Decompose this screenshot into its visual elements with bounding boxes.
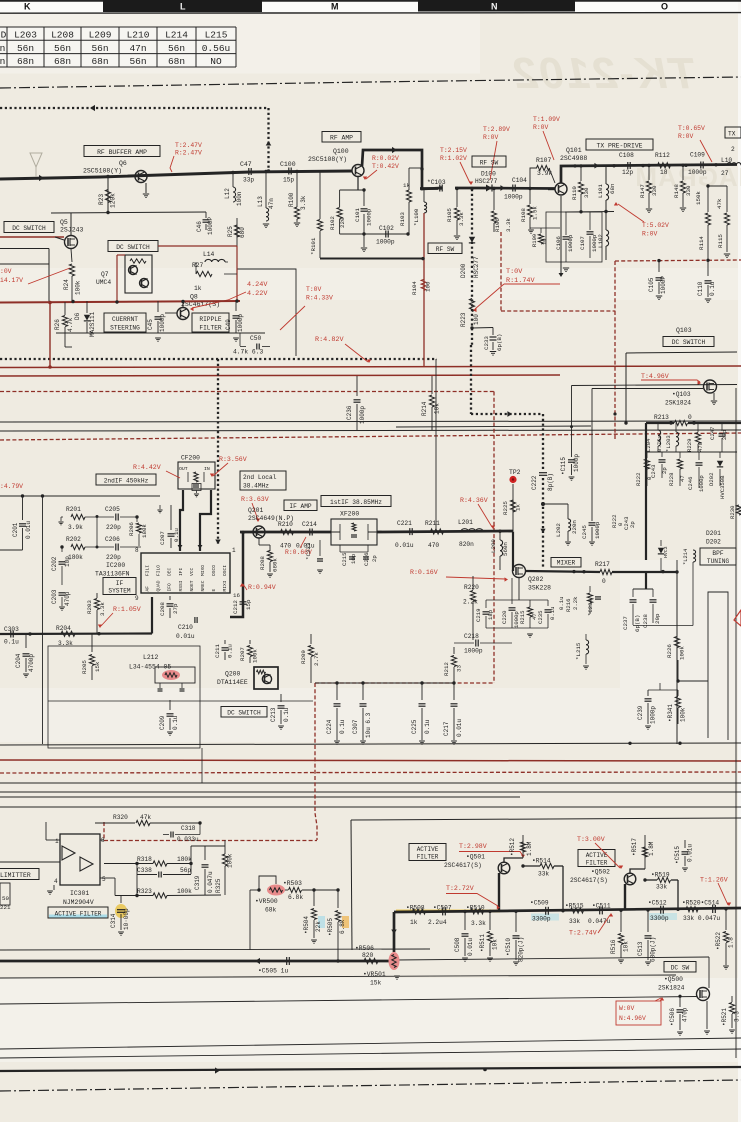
svg-text:6p(B): 6p(B) xyxy=(496,334,503,351)
capacitor C49 xyxy=(225,301,244,333)
resistor R522 xyxy=(715,907,735,957)
svg-text:•R511: •R511 xyxy=(479,934,486,952)
capacitor C103 xyxy=(420,179,478,192)
svg-text:R220: R220 xyxy=(464,584,479,591)
svg-text:C208: C208 xyxy=(159,602,166,616)
label Q501 xyxy=(444,854,485,870)
voltage R:0.66V xyxy=(285,537,312,556)
svg-text:1stIF 38.85MHz: 1stIF 38.85MHz xyxy=(330,499,382,506)
capacitor C50 xyxy=(233,333,270,356)
svg-text:R:1.05V: R:1.05V xyxy=(113,606,141,613)
vertical x42 xyxy=(42,496,44,744)
resistor R225 xyxy=(502,500,522,515)
svg-text:n: n xyxy=(0,56,5,67)
svg-text:C215: C215 xyxy=(341,553,348,566)
mixer out wire xyxy=(526,570,600,574)
box RIPPLE FILTER xyxy=(192,313,229,332)
dotted D200 chain xyxy=(470,187,473,345)
coil value table xyxy=(0,27,236,67)
svg-text:1.8M: 1.8M xyxy=(526,841,533,856)
resistor R211 xyxy=(425,520,444,549)
svg-text:1000p: 1000p xyxy=(594,521,601,539)
transistor Q103 xyxy=(592,380,717,407)
resistor R108 xyxy=(520,187,539,233)
svg-text:T:1.26V: T:1.26V xyxy=(700,877,728,884)
resistor R226 xyxy=(666,570,686,660)
svg-text:DTA114EE: DTA114EE xyxy=(217,679,248,686)
black line y744 xyxy=(0,743,741,745)
svg-text:*C234: *C234 xyxy=(587,599,594,616)
rail y452 xyxy=(646,451,737,453)
voltage R:0.02V T:0.42V xyxy=(363,155,399,180)
svg-text:O: O xyxy=(661,2,668,12)
capacitor C106cell xyxy=(546,212,602,272)
svg-text:C49: C49 xyxy=(225,319,232,330)
svg-text:3.3k: 3.3k xyxy=(458,212,465,226)
svg-text:D202: D202 xyxy=(708,473,715,486)
resistor R212 xyxy=(443,647,463,683)
red dashed bus C xyxy=(0,391,494,393)
svg-text:2SC4988: 2SC4988 xyxy=(560,155,587,162)
capacitor C115 xyxy=(560,386,580,481)
resistor R341 xyxy=(667,690,687,724)
svg-text:Q100: Q100 xyxy=(333,148,349,155)
svg-text:C245: C245 xyxy=(581,525,588,539)
resistor R516 xyxy=(610,909,630,964)
capacitor C314 xyxy=(110,895,130,935)
svg-text:C233: C233 xyxy=(483,336,490,350)
svg-text:R:0.16V: R:0.16V xyxy=(410,569,438,576)
svg-text:0.1u: 0.1u xyxy=(172,715,179,730)
svg-text:R148: R148 xyxy=(673,184,680,198)
enclosure left x351 xyxy=(351,820,352,950)
svg-text:470: 470 xyxy=(697,441,704,452)
capacitor C202 xyxy=(51,545,71,585)
svg-text:L: L xyxy=(180,2,186,12)
svg-text:33k 0.047u: 33k 0.047u xyxy=(683,915,720,922)
resistor R105 xyxy=(446,187,465,240)
dotted vertical x218 xyxy=(215,359,221,545)
svg-text:C225: C225 xyxy=(411,719,418,734)
box RF SW upper xyxy=(472,156,506,167)
svg-text:W:0V: W:0V xyxy=(619,1005,635,1012)
svg-text:C107: C107 xyxy=(579,236,586,250)
svg-text:220p: 220p xyxy=(106,524,121,531)
box CUERRNT STEERING xyxy=(104,313,146,332)
svg-text:IFI: IFI xyxy=(178,567,184,576)
capacitor C303 xyxy=(4,626,19,646)
svg-text:K: K xyxy=(24,2,31,12)
svg-text:47n: 47n xyxy=(129,43,146,54)
svg-text:0: 0 xyxy=(688,414,692,421)
svg-text:3.3k: 3.3k xyxy=(300,195,307,210)
resistor R209 xyxy=(300,634,320,683)
voltage 4.24V 4.22V xyxy=(190,281,268,311)
svg-text:DC SWITCH: DC SWITCH xyxy=(116,244,150,251)
box DC SWITCH if xyxy=(221,707,267,718)
svg-text:C318: C318 xyxy=(181,825,196,832)
svg-text:T:5.02V: T:5.02V xyxy=(642,222,669,229)
capacitor C204 xyxy=(15,634,35,677)
svg-text:CUERRNT: CUERRNT xyxy=(112,316,138,323)
svg-text:8p(B): 8p(B) xyxy=(547,473,554,491)
resistor R27 xyxy=(192,262,237,292)
svg-text:470p: 470p xyxy=(64,591,71,606)
svg-text:R102: R102 xyxy=(329,216,336,230)
svg-text:L212: L212 xyxy=(143,654,159,661)
voltage R:3.56V xyxy=(210,456,247,477)
svg-text:*L215: *L215 xyxy=(575,642,582,660)
svg-text:STEERING: STEERING xyxy=(110,325,140,332)
inductor L201 xyxy=(458,519,483,548)
svg-text:330: 330 xyxy=(583,187,590,198)
svg-text:2SK1824: 2SK1824 xyxy=(665,400,691,407)
svg-text:C104: C104 xyxy=(512,177,527,184)
capacitor C509 xyxy=(530,900,559,923)
svg-text:•R503: •R503 xyxy=(283,880,302,887)
red dash y261 right xyxy=(615,260,741,261)
resistor R220 xyxy=(463,576,479,640)
inductor L203 xyxy=(665,423,679,452)
box 1stIF xyxy=(321,496,391,507)
red dash vertical x615 lower xyxy=(614,311,616,440)
box LIMITTER xyxy=(0,869,39,880)
voltage R:4.42V xyxy=(133,464,180,478)
svg-text:R215: R215 xyxy=(519,611,526,624)
arrow on y1070 bus xyxy=(215,1067,220,1073)
svg-text:0.1u: 0.1u xyxy=(339,719,346,734)
resistor R519 xyxy=(643,872,679,912)
svg-text:2SC5108(Y): 2SC5108(Y) xyxy=(308,156,347,163)
capacitor C223 xyxy=(305,540,323,573)
capacitor C205 xyxy=(85,506,137,531)
svg-text:FILO: FILO xyxy=(156,565,162,576)
audio bus arrow xyxy=(255,957,340,975)
svg-text:2p: 2p xyxy=(371,555,378,562)
svg-text:C222: C222 xyxy=(531,475,538,490)
label Q100 xyxy=(308,148,349,163)
svg-text:*L100: *L100 xyxy=(413,208,420,226)
rail y466 xyxy=(0,0,1,1)
svg-text:C314: C314 xyxy=(110,913,117,928)
svg-text:2p: 2p xyxy=(629,521,636,528)
svg-text:221: 221 xyxy=(0,904,11,911)
svg-text:100k: 100k xyxy=(75,280,82,295)
svg-text:D: D xyxy=(1,30,7,41)
capacitor C510 xyxy=(505,910,525,966)
svg-text:IC200: IC200 xyxy=(106,562,125,569)
red dashed bus F xyxy=(0,433,741,440)
svg-text:R103: R103 xyxy=(399,212,406,226)
component Q200 xyxy=(217,667,278,689)
transistor Q202 xyxy=(513,565,552,592)
svg-text:1k: 1k xyxy=(194,285,202,292)
svg-text:Q7: Q7 xyxy=(101,271,109,278)
svg-text:C46: C46 xyxy=(196,221,203,232)
box 2ndIF 450kHz xyxy=(96,474,156,485)
svg-text:470: 470 xyxy=(428,542,439,549)
svg-text:1000p: 1000p xyxy=(567,234,574,252)
capacitor C220 xyxy=(501,578,520,628)
svg-text:R27: R27 xyxy=(192,262,204,269)
svg-text:1000p: 1000p xyxy=(237,314,244,332)
svg-text:0.033u: 0.033u xyxy=(177,836,199,843)
rail y427 xyxy=(396,426,591,430)
svg-text:680: 680 xyxy=(239,227,246,238)
box DC SWITCH q7 xyxy=(108,241,158,252)
svg-text:•R520•C514: •R520•C514 xyxy=(682,900,719,907)
capacitor C236 xyxy=(346,376,366,430)
svg-text:15p: 15p xyxy=(245,599,252,610)
IC301 wires xyxy=(0,822,104,894)
svg-text:R:0V: R:0V xyxy=(483,134,499,141)
svg-text:C101: C101 xyxy=(354,208,361,222)
svg-text:TX PRE-DRIVE: TX PRE-DRIVE xyxy=(596,143,642,150)
inductor L101 xyxy=(597,166,616,211)
label D201 D202 xyxy=(706,530,721,546)
inductor L202 labels xyxy=(555,520,578,537)
resistor R511 xyxy=(479,910,499,962)
capacitor C224 xyxy=(326,683,346,744)
svg-text:R325: R325 xyxy=(215,878,222,893)
box 2nd Local xyxy=(240,471,286,490)
svg-text:ACTIVE FILTER: ACTIVE FILTER xyxy=(55,911,102,918)
box RF BUFFER AMP xyxy=(84,146,160,157)
svg-text:C508: C508 xyxy=(454,937,461,952)
svg-text:IC301: IC301 xyxy=(70,890,89,897)
svg-text:C338: C338 xyxy=(137,867,152,874)
svg-text:1000P: 1000P xyxy=(660,276,667,294)
voltage W:0V N:4.96V xyxy=(616,997,664,1025)
light band bottom xyxy=(0,978,741,1062)
svg-text:C206: C206 xyxy=(105,536,120,543)
svg-text:1000p: 1000p xyxy=(376,239,395,246)
svg-text:56n: 56n xyxy=(54,43,71,54)
audio AF bus xyxy=(0,632,152,636)
svg-text:TA31136FN: TA31136FN xyxy=(95,571,130,578)
ground Q6 emitter xyxy=(143,183,149,198)
svg-text:•R515: •R515 xyxy=(565,903,584,910)
svg-text:HSC277: HSC277 xyxy=(473,256,480,278)
svg-text:470p: 470p xyxy=(682,1007,689,1022)
black bus J xyxy=(0,791,741,793)
resistor R515 xyxy=(565,903,584,926)
svg-text:NDET: NDET xyxy=(189,580,195,591)
capacitor C233 stub xyxy=(470,326,503,355)
resistor R206 xyxy=(128,515,148,546)
black wires top left corner xyxy=(0,249,49,303)
resistor R517 xyxy=(631,835,655,869)
label Q101 xyxy=(560,147,587,162)
VR500 loop xyxy=(257,876,276,892)
black bus K2 xyxy=(0,806,741,808)
svg-text:C106: C106 xyxy=(555,236,562,250)
svg-text:100k: 100k xyxy=(252,649,259,663)
svg-text:3.3k: 3.3k xyxy=(99,602,106,616)
svg-text:C205: C205 xyxy=(105,506,120,513)
svg-text:T:0.42V: T:0.42V xyxy=(372,163,399,170)
capacitor C210 xyxy=(176,617,197,640)
svg-text:R105: R105 xyxy=(446,208,453,222)
black line y977 xyxy=(0,975,676,978)
resistor R24 xyxy=(63,249,82,301)
svg-text:68k: 68k xyxy=(265,907,277,914)
resistor R207 xyxy=(239,640,259,663)
svg-text:C220: C220 xyxy=(501,610,508,624)
resistor R210 xyxy=(278,521,294,550)
capacitor C214 xyxy=(296,521,317,550)
svg-text:Q101: Q101 xyxy=(566,147,582,154)
svg-text:OSCI: OSCI xyxy=(222,565,228,576)
svg-text:T:2.47V: T:2.47V xyxy=(175,142,202,149)
svg-text:•Q103: •Q103 xyxy=(672,391,691,398)
label Q8 xyxy=(181,294,220,309)
svg-text:*L214: *L214 xyxy=(683,549,689,565)
resistor R23 xyxy=(98,177,117,212)
light region right xyxy=(620,560,741,740)
svg-text:L101: L101 xyxy=(597,184,604,198)
svg-text:•Q500: •Q500 xyxy=(664,976,683,983)
svg-text:TP2: TP2 xyxy=(509,469,521,476)
svg-text:E: E xyxy=(211,589,217,592)
voltage T:1.26V xyxy=(700,877,731,907)
diode D100 xyxy=(475,171,498,192)
svg-text:L208: L208 xyxy=(51,30,74,41)
svg-text:2SC5108(Y): 2SC5108(Y) xyxy=(83,168,122,175)
resistor R208 xyxy=(259,538,279,577)
capacitor C318 xyxy=(163,821,202,843)
svg-text:R110: R110 xyxy=(571,186,578,200)
wire VR500 left xyxy=(249,890,251,950)
capacitor C506 xyxy=(669,996,689,1035)
svg-text:T:0V: T:0V xyxy=(506,268,523,276)
svg-text:6p(B): 6p(B) xyxy=(634,615,641,632)
capacitor C247 xyxy=(709,423,728,452)
svg-text:C213: C213 xyxy=(270,707,277,722)
right edge vertical xyxy=(735,388,737,1058)
svg-text:0.1u: 0.1u xyxy=(4,639,19,646)
svg-text:T:0V: T:0V xyxy=(306,286,322,293)
capacitor C100 xyxy=(280,161,296,184)
svg-text:•C506: •C506 xyxy=(669,1008,676,1026)
capacitor C209 xyxy=(159,700,179,735)
voltage T:2.47V R:2.47V xyxy=(170,142,202,172)
dotted path D200 to mixer xyxy=(471,345,546,569)
resistor R320 xyxy=(95,814,200,826)
transistor Q500 xyxy=(697,957,710,1034)
svg-text:C307: C307 xyxy=(352,719,359,734)
svg-text:0.1u: 0.1u xyxy=(549,607,556,620)
black bus D xyxy=(0,421,741,422)
resistor R101 xyxy=(310,172,323,258)
svg-text:R217: R217 xyxy=(595,561,610,568)
svg-text:1k: 1k xyxy=(515,504,522,511)
svg-text:R202: R202 xyxy=(66,536,81,543)
IF bus xyxy=(240,531,331,534)
transistor Q101 xyxy=(548,183,567,195)
capacitor C243 xyxy=(650,452,668,478)
svg-text:FILI: FILI xyxy=(145,565,151,576)
svg-text:1000p: 1000p xyxy=(504,194,523,201)
svg-text:XF200: XF200 xyxy=(340,511,359,518)
red bus B xyxy=(0,375,560,376)
box DC SWITCH q5 xyxy=(4,222,54,233)
svg-text:R:2.47V: R:2.47V xyxy=(175,150,202,157)
resistor R323 xyxy=(100,878,221,898)
svg-text:4.7k 6.3: 4.7k 6.3 xyxy=(233,349,263,356)
box TX right edge xyxy=(725,127,741,138)
svg-text:•C509: •C509 xyxy=(530,900,549,907)
voltage T:0.65V R:0V xyxy=(678,125,712,162)
capacitor C338 xyxy=(137,846,191,895)
component L212 xyxy=(129,654,195,691)
svg-text:R205: R205 xyxy=(81,660,88,674)
svg-text:M: M xyxy=(331,2,339,12)
svg-text:•R521: •R521 xyxy=(721,1008,728,1026)
transistor Q8 xyxy=(165,301,189,320)
svg-text:C319: C319 xyxy=(194,875,201,890)
svg-text:R:3.63V: R:3.63V xyxy=(241,496,269,503)
capacitor C217 xyxy=(443,683,463,744)
svg-text:2.2u4: 2.2u4 xyxy=(428,919,447,926)
label right edge parts xyxy=(0,0,1,1)
svg-text:C207: C207 xyxy=(159,531,166,545)
svg-text:4.24V: 4.24V xyxy=(247,281,268,289)
discriminator enclosure xyxy=(48,646,313,783)
svg-text:C303: C303 xyxy=(4,626,19,633)
capacitor C110 xyxy=(697,259,716,303)
resistor R201 xyxy=(58,506,85,531)
svg-text:C202: C202 xyxy=(51,556,58,571)
rail y212 xyxy=(565,210,614,214)
svg-text:D100: D100 xyxy=(481,171,496,178)
svg-text:0: 0 xyxy=(602,578,606,585)
svg-text:L102: L102 xyxy=(597,234,604,248)
rail y625 bpf xyxy=(633,625,693,627)
svg-text:Q201: Q201 xyxy=(248,507,264,514)
svg-text:R108: R108 xyxy=(520,208,527,222)
red dash TX box right x615 xyxy=(614,261,616,311)
svg-text:3.3k: 3.3k xyxy=(471,920,486,927)
resistor R25 xyxy=(227,218,246,255)
red dash TX box left x501 xyxy=(500,232,502,311)
svg-text:47n: 47n xyxy=(268,198,275,209)
box ACTIVE FILTER 2 xyxy=(578,850,615,867)
svg-text:C224: C224 xyxy=(326,719,333,734)
svg-text:27: 27 xyxy=(721,170,729,177)
svg-text:68n: 68n xyxy=(17,56,34,67)
svg-text:560n: 560n xyxy=(502,542,509,556)
svg-text:2.2k: 2.2k xyxy=(463,599,478,606)
svg-text:47: 47 xyxy=(679,475,686,482)
capacitor C45 xyxy=(147,301,166,333)
svg-text:R206: R206 xyxy=(128,522,135,536)
voltage R:0.16V xyxy=(410,569,508,582)
svg-text:R:3.56V: R:3.56V xyxy=(219,456,247,463)
ground rail q202 xyxy=(486,577,548,637)
svg-text:150k: 150k xyxy=(695,191,702,205)
resistor R325 xyxy=(215,840,234,895)
svg-text:8: 8 xyxy=(101,837,105,844)
svg-text:R210: R210 xyxy=(278,521,293,528)
svg-text:AF: AF xyxy=(145,586,151,592)
svg-text:IFO: IFO xyxy=(167,583,173,592)
capacitor C212 xyxy=(232,592,252,614)
svg-text:3.3: 3.3 xyxy=(734,1011,741,1022)
svg-text:2SC4617(S): 2SC4617(S) xyxy=(570,877,608,884)
resistor R510 xyxy=(466,905,486,928)
box TX PRE-DRIVE xyxy=(586,139,653,150)
